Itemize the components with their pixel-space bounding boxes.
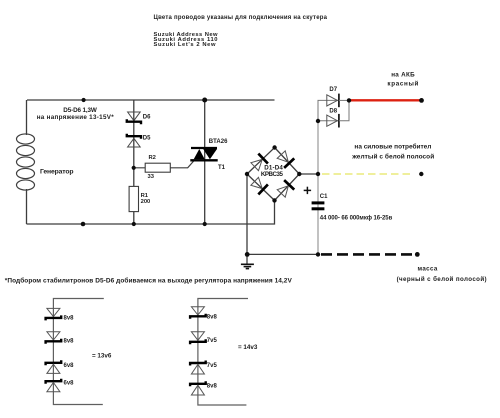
svg-text:на АКБ: на АКБ	[391, 71, 415, 78]
svg-text:KPBC35: KPBC35	[261, 171, 284, 178]
triac T1	[190, 148, 217, 160]
node bridge DC minus	[245, 172, 249, 176]
C1 plus sign	[304, 187, 311, 194]
wire to D7 anode	[318, 100, 339, 121]
svg-text:6v8: 6v8	[64, 363, 75, 369]
resistor R2	[145, 163, 170, 172]
node triac bottom	[203, 222, 207, 226]
node bridge AC bottom	[272, 198, 276, 202]
node C1 plus rail	[316, 172, 320, 176]
svg-text:44 000- 66 000мкф 16-25в: 44 000- 66 000мкф 16-25в	[320, 215, 393, 222]
wire to D8 anode	[318, 120, 339, 122]
diode D8	[327, 114, 339, 128]
svg-text:Генератор: Генератор	[40, 169, 74, 176]
svg-text:желтый с белой полосой: желтый с белой полосой	[351, 153, 434, 161]
generator coil L1	[17, 134, 35, 190]
zener D6	[127, 112, 141, 124]
wire bridge plus output	[299, 173, 318, 175]
wire R2 gate link	[134, 161, 194, 168]
svg-text:R2: R2	[149, 155, 156, 161]
svg-text:масса: масса	[418, 265, 438, 272]
wire zener branch vertical	[133, 100, 135, 224]
bridge diode bottom-left	[250, 176, 268, 194]
chain2 zener 7v5 second	[190, 332, 206, 345]
svg-text:на силовые потребител: на силовые потребител	[354, 143, 431, 151]
wire DC plus vertical	[317, 121, 319, 254]
wire bottom	[27, 200, 275, 224]
red battery wire	[349, 99, 420, 101]
chain1 zener 8v8 top	[46, 308, 62, 320]
svg-text:8v8: 8v8	[207, 315, 218, 321]
capacitor C1	[312, 201, 325, 210]
svg-text:= 14v3: = 14v3	[238, 344, 258, 351]
svg-text:8v8: 8v8	[64, 316, 75, 322]
svg-text:(черный с белой полосой): (черный с белой полосой)	[397, 276, 487, 283]
chain2 zener 8v8 fourth	[190, 381, 206, 395]
wire bridge minus to ground	[246, 174, 248, 264]
wire D7 cathode	[339, 99, 349, 101]
node D7 D8 cathodes	[347, 98, 351, 102]
node generator bottom	[81, 222, 86, 227]
bridge diode bottom-right	[276, 180, 294, 198]
wire left down to coil	[26, 100, 28, 135]
node R1 bottom	[132, 222, 136, 226]
svg-text:D7: D7	[329, 87, 337, 93]
svg-text:T1: T1	[218, 165, 226, 171]
svg-text:D5-D6 1,3W: D5-D6 1,3W	[63, 107, 97, 114]
chain1 zener 8v8 second	[46, 332, 62, 344]
chain1 zener 6v8 third	[46, 360, 62, 373]
node ground junction	[245, 252, 250, 257]
bridge diode top-right	[276, 150, 294, 168]
yellow consumers wire	[322, 173, 414, 175]
svg-text:6v8: 6v8	[64, 380, 75, 386]
svg-text:D5: D5	[143, 135, 151, 141]
svg-text:D6: D6	[143, 114, 151, 120]
svg-text:*Подбором стабилитронов D5-D6: *Подбором стабилитронов D5-D6 добиваемся…	[5, 276, 293, 284]
bridge rectifier D1-D4	[247, 148, 299, 201]
diode D7	[327, 94, 339, 108]
chain2 zener 7v5 third	[190, 361, 206, 375]
wire coil to bottom	[26, 189, 28, 224]
node yellow end	[419, 172, 423, 176]
wire triac vertical	[204, 100, 206, 224]
node D8 anode	[316, 119, 320, 123]
node R2 tap	[132, 166, 136, 170]
ground	[241, 264, 254, 268]
node C1 minus	[316, 252, 320, 256]
node black end	[415, 252, 420, 257]
chain2 zener 8v8 top	[190, 307, 206, 319]
svg-text:8v8: 8v8	[207, 384, 218, 390]
svg-text:Suzuki Let's 2 New: Suzuki Let's 2 New	[154, 42, 216, 48]
zener D5	[127, 134, 141, 147]
node triac anode top	[202, 98, 207, 103]
chain 2 bracket	[198, 299, 248, 406]
svg-text:8v8: 8v8	[64, 339, 75, 345]
svg-text:на напряжение 13-15V*: на напряжение 13-15V*	[37, 114, 115, 121]
bridge diode top-left	[250, 154, 268, 172]
black ground wire dashed	[321, 253, 413, 256]
node red end	[419, 98, 424, 103]
svg-text:BTA26: BTA26	[209, 139, 228, 145]
svg-text:D8: D8	[329, 108, 337, 114]
svg-text:200: 200	[141, 199, 151, 205]
svg-text:33: 33	[148, 174, 155, 180]
wire ground to C1 bottom	[247, 253, 318, 255]
chain1 zener 6v8 fourth	[46, 379, 62, 392]
node bridge AC top	[272, 145, 276, 149]
svg-text:Цвета проводов указаны для под: Цвета проводов указаны для подключения н…	[154, 15, 328, 21]
node bridge DC plus	[297, 172, 301, 176]
svg-text:= 13v6: = 13v6	[92, 353, 112, 360]
node generator top	[82, 98, 86, 102]
wire top	[27, 99, 275, 101]
wire D8 cathode up	[339, 100, 349, 120]
resistor R1	[129, 186, 138, 211]
svg-text:красный: красный	[387, 79, 418, 87]
chain 1 bracket	[53, 299, 103, 405]
svg-text:C1: C1	[320, 194, 328, 200]
svg-text:7v5: 7v5	[207, 338, 218, 344]
svg-text:7v5: 7v5	[207, 363, 218, 369]
